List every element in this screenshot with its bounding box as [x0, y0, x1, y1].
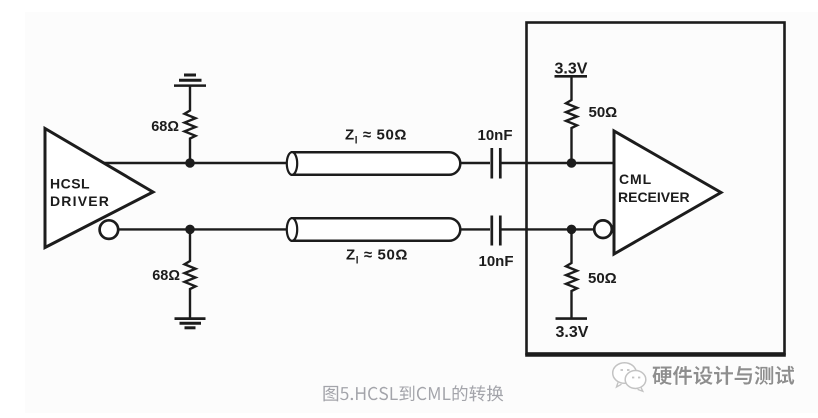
- wire: C1 into box to CML receiver input: [501, 162, 615, 164]
- resistor R1 68ohm: [185, 87, 196, 164]
- op-amp U2 CML receiver: [614, 131, 721, 254]
- resistor R4 50ohm (bottom pull-up): [566, 229, 577, 318]
- wire: HCSL bottom output to T-line: [117, 228, 288, 230]
- svg-text:HCSL: HCSL: [50, 176, 90, 192]
- svg-text:10nF: 10nF: [477, 127, 512, 144]
- transmission line TL2 (bottom, Z=50ohm): [292, 218, 460, 241]
- ground (bottom, below R2): [175, 319, 206, 328]
- resistor R3 50ohm (top pull-up): [566, 77, 577, 163]
- svg-text:68Ω: 68Ω: [151, 119, 179, 135]
- inversion bubble on CML receiver input: [594, 220, 612, 238]
- transmission line TL1 (top, Z=50ohm): [292, 152, 460, 175]
- ground (top, above R1): [174, 75, 206, 86]
- CML receiver enclosure box: [527, 23, 785, 354]
- node: top wire / R1 junction: [185, 158, 195, 168]
- wire: HCSL top output to T-line: [100, 162, 288, 164]
- inversion bubble on HCSL driver output: [100, 220, 119, 239]
- node: bottom wire / R4 junction: [567, 225, 577, 235]
- resistor R2 68ohm: [185, 229, 196, 318]
- power rail 3.3V (bottom): [556, 317, 588, 320]
- wire: C2 into box to CML receiver inverting input: [501, 228, 594, 230]
- svg-text:68Ω: 68Ω: [152, 268, 180, 284]
- watermark WeChat icon: [613, 363, 646, 392]
- svg-text:3.3V: 3.3V: [556, 324, 589, 341]
- svg-text:10nF: 10nF: [478, 253, 513, 270]
- node: top wire / R3 junction: [567, 158, 577, 168]
- svg-text:3.3V: 3.3V: [555, 61, 588, 78]
- wire: top T-line to capacitor C1: [459, 162, 490, 164]
- svg-text:DRIVER: DRIVER: [50, 193, 110, 209]
- svg-text:RECEIVER: RECEIVER: [618, 189, 690, 205]
- caption: figure 5 HCSL to CML conversion: [323, 385, 503, 401]
- op-amp U1 HCSL driver: [45, 129, 153, 248]
- wire: bottom T-line to capacitor C2: [459, 228, 490, 230]
- node: bottom wire / R2 junction: [185, 225, 195, 235]
- watermark text: [652, 366, 795, 386]
- capacitor C1 10nF (top): [492, 148, 501, 179]
- svg-text:50Ω: 50Ω: [589, 104, 618, 121]
- svg-text:50Ω: 50Ω: [588, 270, 617, 287]
- svg-text:CML: CML: [619, 171, 652, 187]
- capacitor C2 10nF (bottom): [492, 216, 501, 246]
